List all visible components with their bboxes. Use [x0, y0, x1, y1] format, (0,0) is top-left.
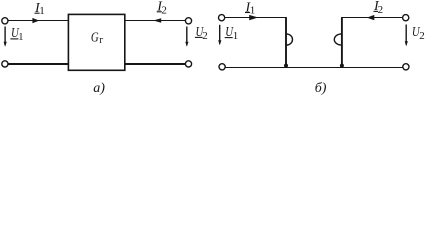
- current source arc 1 (b): [286, 34, 292, 45]
- svg-text:2: 2: [378, 4, 384, 16]
- label I2 (a): [156, 0, 167, 17]
- current arrow I2 (b): [367, 15, 375, 20]
- svg-text:2: 2: [419, 30, 425, 42]
- label U1 (b): [225, 25, 239, 42]
- wire input top (a): [8, 20, 68, 22]
- terminal 3 (top-right, b): [403, 15, 409, 21]
- label U2 (b) no underline: [412, 25, 425, 42]
- svg-text:г: г: [99, 35, 103, 46]
- svg-text:1: 1: [233, 30, 239, 42]
- branch line 2 (b): [341, 18, 343, 68]
- wire top-left (b): [225, 17, 287, 19]
- voltage arrow U2 (a): [185, 27, 188, 47]
- voltage arrow U2 (b): [405, 25, 408, 47]
- wire output bottom (a): [125, 63, 186, 65]
- junction node 2 (b): [340, 64, 344, 68]
- wire input bottom (a): [8, 63, 68, 65]
- bottom rail (b): [226, 67, 403, 69]
- current arrow I2 (a): [153, 18, 161, 22]
- svg-text:2: 2: [161, 5, 167, 17]
- wire output top (a): [125, 20, 186, 22]
- svg-text:1: 1: [18, 32, 23, 43]
- terminal 4 (bottom-right, b): [403, 64, 409, 70]
- svg-text:б): б): [315, 81, 327, 96]
- svg-text:2: 2: [202, 30, 208, 42]
- current arrow I1 (a): [32, 18, 39, 23]
- branch line 1 (b): [285, 18, 287, 68]
- terminal 3 (top-right, a): [185, 18, 191, 24]
- label U2 (a): [195, 25, 208, 42]
- svg-text:1: 1: [250, 4, 256, 16]
- current source arc 2 (b): [334, 34, 341, 45]
- two-port box Gg: [68, 14, 124, 70]
- label Gg (box): [91, 31, 103, 46]
- voltage arrow U1 (b): [218, 25, 221, 46]
- terminal 1 (top-left, a): [2, 18, 8, 24]
- terminal 1 (top-left, b): [219, 15, 225, 21]
- label U1 (a): [10, 26, 23, 43]
- current arrow I1 (b): [249, 15, 258, 20]
- voltage arrow U1 (a): [4, 27, 7, 47]
- label I1 (b): [245, 0, 256, 16]
- svg-text:G: G: [91, 31, 99, 46]
- label I2 (b): [373, 0, 383, 16]
- svg-text:1: 1: [39, 5, 45, 17]
- svg-text:а): а): [93, 81, 105, 96]
- terminal 4 (bottom-right, a): [185, 61, 191, 67]
- label I1 (a): [34, 1, 45, 17]
- terminal 2 (bottom-left, a): [2, 61, 8, 67]
- wire top-right (b): [341, 17, 402, 19]
- junction node 1 (b): [284, 64, 288, 68]
- terminal 2 (bottom-left, b): [219, 64, 225, 70]
